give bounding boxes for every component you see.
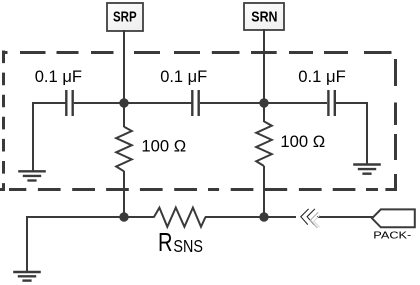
- resistor R2 100 ohm zigzag: [256, 121, 272, 166]
- capacitor C3 0.1uF left plate: [327, 90, 329, 116]
- wire top horizontal segment 2: [74, 102, 192, 104]
- wire left vertical stub to ground: [32, 102, 34, 171]
- junction dot top right node: [259, 98, 268, 107]
- wire top horizontal segment 3: [200, 102, 327, 104]
- svg-text:SRP: SRP: [113, 9, 137, 26]
- wire break symbol gray chevron 2: [314, 215, 320, 227]
- resistor R1 100 ohm zigzag: [116, 127, 132, 172]
- svg-text:100 Ω: 100 Ω: [280, 133, 325, 151]
- junction dot bottom left node: [119, 212, 128, 221]
- wire break symbol gray chevron 1: [310, 212, 318, 228]
- svg-text:SNS: SNS: [173, 236, 203, 256]
- capacitor C2 0.1uF left plate: [191, 90, 193, 116]
- svg-text:0.1 μF: 0.1 μF: [160, 67, 207, 86]
- svg-text:SRN: SRN: [251, 9, 277, 26]
- ground symbol left inside box: [18, 171, 46, 180]
- wire bottom horizontal segment 1: [27, 216, 155, 218]
- dashed boundary box bottom edge: [0, 188, 397, 191]
- ground symbol bottom left: [13, 272, 41, 281]
- off-page connector PACK- pentagon: [372, 209, 415, 227]
- terminal box SRP: [107, 3, 143, 31]
- wire bottom horizontal segment 3: [317, 216, 373, 218]
- svg-text:R: R: [158, 229, 173, 257]
- svg-text:0.1 μF: 0.1 μF: [298, 67, 346, 86]
- wire break symbol dark chevron 2: [307, 209, 315, 225]
- dashed boundary box left edge: [2, 51, 5, 191]
- wire SRP vertical lower: [123, 171, 125, 218]
- wire SRN vertical upper: [263, 29, 265, 122]
- capacitor C3 0.1uF right plate: [334, 90, 336, 116]
- capacitor C1 0.1uF left plate: [65, 90, 67, 116]
- wire bottom left vertical to ground: [26, 216, 28, 271]
- wire SRN vertical lower: [263, 166, 265, 218]
- wire top horizontal segment 1: [33, 102, 67, 104]
- terminal box SRN: [244, 3, 284, 30]
- wire SRP vertical upper: [123, 30, 125, 127]
- junction dot top left node: [119, 98, 128, 107]
- svg-text:100 Ω: 100 Ω: [141, 138, 186, 156]
- resistor RSNS zigzag: [154, 208, 206, 227]
- wire break symbol dark chevron 1: [301, 209, 309, 225]
- dashed boundary box right edge: [394, 59, 397, 191]
- dashed boundary box top edge: [2, 51, 392, 54]
- wire right vertical stub to ground: [366, 102, 368, 164]
- svg-text:PACK-: PACK-: [373, 231, 411, 242]
- junction dot bottom right node: [259, 212, 268, 221]
- svg-text:0.1 μF: 0.1 μF: [35, 67, 82, 86]
- capacitor C2 0.1uF right plate: [197, 90, 199, 116]
- wire top horizontal segment 4: [336, 102, 367, 104]
- capacitor C1 0.1uF right plate: [71, 90, 73, 116]
- ground symbol right inside box: [353, 165, 381, 174]
- wire bottom horizontal segment 2: [205, 216, 296, 218]
- resistor RSNS label: [158, 229, 203, 257]
